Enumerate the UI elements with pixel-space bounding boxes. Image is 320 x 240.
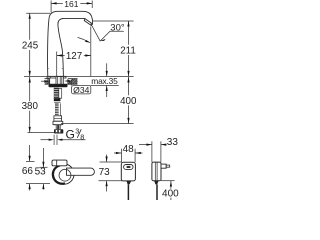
deck reference line — [24, 76, 134, 78]
top view sensor window — [52, 160, 67, 166]
spout outlet face line 1 — [85, 19, 93, 24]
threaded rod upper — [54, 88, 59, 98]
dimension 127 line — [57, 55, 91, 57]
spout outlet face line 2 — [84, 21, 91, 26]
dimension 73 line lower — [106, 181, 108, 192]
dimension 66 line upper — [29, 145, 31, 161]
dimension 211 top extension line — [93, 20, 134, 22]
deck hatching right — [68, 79, 77, 84]
side view box — [152, 162, 161, 181]
top view spout stadium — [67, 168, 95, 175]
threaded shank through deck — [56, 77, 63, 85]
hole arrow right and diameter 34 leader — [70, 81, 72, 86]
svg-text:Ø34: Ø34 — [73, 85, 89, 95]
dimension 33 line — [139, 144, 166, 146]
hose lower segment — [56, 125, 61, 130]
380 bottom extension line — [28, 132, 60, 134]
svg-text:73: 73 — [99, 167, 111, 178]
svg-text:380: 380 — [22, 101, 39, 112]
control box sensor capsule — [124, 165, 133, 170]
hose end nut — [54, 129, 63, 133]
dimension 380 line — [29, 77, 31, 132]
sensor leader arrow — [78, 37, 90, 42]
rod gap line — [54, 102, 61, 104]
dimension 73 bottom extension — [99, 180, 124, 182]
svg-text:161: 161 — [64, 0, 78, 9]
svg-text:30°: 30° — [110, 22, 125, 33]
dimension 66 line lower — [29, 184, 31, 191]
fitting collar — [53, 121, 63, 124]
top view dark crescent — [53, 165, 65, 183]
30 degree leader — [100, 31, 124, 41]
svg-text:400: 400 — [120, 96, 137, 107]
dimension 53 line upper — [42, 148, 44, 167]
rod side piece — [59, 89, 62, 99]
side view plug — [161, 164, 166, 168]
400 bottom extension line — [61, 123, 134, 125]
rod lower right edge — [59, 103, 61, 115]
G 3/8 dimension arrows and shelf — [41, 139, 49, 141]
faucet spout outer contour — [48, 11, 93, 76]
66 top tick — [26, 160, 35, 162]
deck top line — [45, 78, 78, 80]
dimension 53 line lower — [42, 184, 44, 190]
rod dark band — [54, 98, 61, 101]
dimension 33 extension lines — [152, 141, 161, 162]
svg-text:33: 33 — [167, 137, 179, 148]
hole arrow left — [41, 80, 45, 82]
spout aerator inset edge — [83, 19, 86, 21]
svg-text:127: 127 — [66, 51, 82, 62]
top extension line for 245 — [26, 12, 50, 14]
dimension 161 extension line right — [91, 1, 93, 9]
dimension 127 extension line — [56, 52, 58, 77]
svg-text:245: 245 — [22, 41, 39, 52]
body seam ticks — [47, 68, 63, 70]
max.35 dimension upper line — [106, 63, 108, 76]
dimension 400 line (right) — [128, 77, 130, 123]
water jet extension line — [90, 27, 92, 77]
side view cable — [154, 181, 158, 185]
G 3/8 thread extension lines — [54, 135, 57, 145]
top view base circle — [54, 164, 74, 184]
53 top tick — [40, 166, 48, 168]
svg-text:400: 400 — [162, 188, 179, 199]
deck hatching left — [45, 79, 50, 84]
mounting washer bar — [49, 84, 68, 87]
dimension 161 line — [51, 2, 92, 4]
max.35 dimension lower line — [106, 86, 108, 98]
svg-text:48: 48 — [123, 144, 135, 155]
hose fitting — [54, 116, 62, 125]
30 degree face extension line — [91, 24, 101, 42]
400 bottom-right extension line — [161, 180, 175, 182]
top view inner circle — [59, 169, 71, 181]
base flange — [47, 76, 66, 78]
spout tip bottom edge — [91, 24, 92, 26]
deck bottom line — [45, 83, 78, 85]
svg-text:211: 211 — [120, 46, 136, 57]
dimension 245 line — [29, 13, 31, 76]
dimension 73 line upper — [106, 155, 108, 162]
svg-text:53: 53 — [35, 167, 47, 178]
faucet inner contour — [58, 18, 85, 76]
66/53 bottom tick — [26, 183, 50, 185]
svg-text:max.35: max.35 — [91, 76, 118, 86]
dimension 48 line — [114, 152, 143, 154]
control box cable — [126, 181, 131, 184]
dimension 48 extension lines — [122, 149, 136, 163]
max.35 underline — [91, 84, 119, 86]
diameter 34 box — [72, 86, 91, 94]
dimension 73 top extension — [100, 161, 123, 163]
svg-text:66: 66 — [22, 166, 34, 177]
deck hole edges — [50, 79, 68, 85]
dimension 211 line — [128, 21, 130, 76]
threaded rod lower — [55, 103, 59, 115]
dimension 161 extension line left — [50, 1, 52, 13]
control box front view — [121, 162, 135, 181]
dimension 400 bottom-right line — [170, 181, 172, 200]
